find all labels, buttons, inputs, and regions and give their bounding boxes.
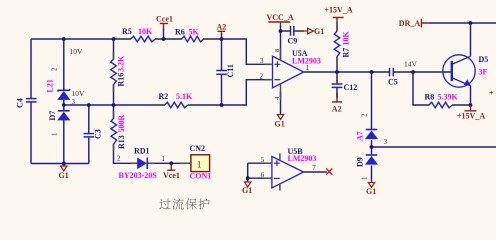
svg-text:3F: 3F [479, 68, 488, 77]
wire RD1 to Vce1 node to CN2 [148, 162, 191, 164]
power port A2 bottom [336, 93, 338, 99]
pin 8 stub U5A [280, 48, 282, 61]
resistor R6 pins [175, 38, 182, 40]
U5A pin3 stub [265, 63, 273, 65]
wire top rail between R5 and R6 [155, 38, 182, 40]
junction C11 bottom [220, 103, 224, 107]
transistor D5 emitter diagonal [453, 78, 471, 86]
wire U5B pin6 [248, 177, 272, 179]
svg-text:A7: A7 [356, 131, 365, 141]
wire D9 column to ground [371, 147, 373, 181]
wire R8 to emitter node [453, 104, 471, 106]
U5A plus sign [275, 61, 281, 67]
wire diode A7 column from node [371, 72, 373, 147]
U5B pin5 stub [264, 162, 272, 164]
junction output R7-C12 [335, 70, 339, 74]
svg-text:R16: R16 [116, 73, 125, 87]
transistor D5 emitter arrow [464, 79, 471, 86]
wire U5B pin5 [248, 162, 272, 164]
svg-text:2: 2 [361, 113, 369, 117]
junction R16 top [112, 37, 116, 41]
wire top rail from R6 to corner and down to U5A pin3 [203, 39, 273, 64]
svg-text:10V: 10V [70, 47, 84, 56]
svg-text:R6: R6 [175, 28, 185, 37]
diode A7 [366, 129, 378, 131]
capacitor C12 pins [336, 76, 338, 84]
junction Vce1 [169, 161, 173, 165]
junction collector DR_A [469, 21, 473, 25]
svg-text:5.1K: 5.1K [176, 92, 193, 101]
svg-text:1: 1 [162, 155, 166, 163]
power port Vce1 [167, 164, 175, 170]
svg-text:10V: 10V [72, 89, 86, 98]
svg-text:6: 6 [261, 171, 265, 179]
resistor R2 zigzag [165, 102, 188, 108]
svg-text:C12: C12 [344, 83, 358, 92]
resistor R5 pins [123, 38, 131, 40]
U5A output pin stub [304, 71, 312, 73]
junction U5B inputs [246, 176, 250, 180]
wire base node to Q base [413, 71, 451, 73]
wire U5B input tie x=247.7 [247, 163, 249, 181]
svg-text:R5: R5 [122, 27, 132, 36]
svg-text:LM2903: LM2903 [292, 57, 321, 66]
wire U5A pin4 to ground [280, 92, 282, 114]
resistor R16 zigzag [111, 59, 117, 84]
svg-text:G1: G1 [366, 187, 376, 196]
svg-text:2: 2 [260, 72, 264, 80]
svg-text:R7: R7 [341, 48, 350, 58]
svg-text:3: 3 [384, 138, 388, 146]
resistor R7 zigzag [334, 31, 340, 57]
svg-text:5: 5 [261, 156, 265, 164]
svg-text:+15V_A: +15V_A [457, 112, 485, 121]
svg-text:10K: 10K [341, 31, 350, 46]
svg-text:2: 2 [117, 155, 121, 163]
diode D7 [58, 110, 70, 112]
diode RD1 pins [131, 162, 138, 164]
resistor R13 zigzag [111, 118, 117, 144]
ground G1 under U5A pin4 [280, 113, 282, 115]
capacitor C12 plates [332, 83, 343, 85]
svg-text:C5: C5 [388, 78, 398, 87]
ground G1 under D9 [371, 181, 373, 183]
wire mid rail y=105 from diode node to R2 [64, 104, 165, 106]
wire U5A output to node [304, 71, 337, 73]
wire top rail y=39 left segment [31, 38, 131, 40]
U5B pin6 stub [264, 177, 272, 179]
diode D9 [366, 154, 378, 156]
wire VCC node to C9 [281, 30, 291, 32]
svg-text:R2: R2 [159, 92, 169, 101]
junction top-left [62, 37, 66, 41]
resistor R8 pins [422, 104, 430, 106]
U5B plus sign [274, 160, 280, 166]
ground G1 right-pointing after C9 [304, 30, 308, 32]
CN2 pin line [180, 162, 191, 164]
svg-text:R13: R13 [117, 135, 126, 149]
svg-text:C11: C11 [226, 64, 235, 77]
capacitor C9 pins [285, 30, 290, 32]
U5B minus sign [274, 177, 280, 179]
U5B bottom power stub [279, 184, 281, 191]
resistor R8 zigzag [429, 102, 453, 108]
svg-text:Cce1: Cce1 [156, 15, 173, 24]
connector CN2 box [191, 155, 210, 172]
capacitor C5 plates [389, 68, 391, 77]
wire R7 pins [336, 22, 338, 72]
junction VCC_A [279, 29, 283, 33]
svg-text:7: 7 [312, 164, 316, 172]
transistor D5 collector diagonal [453, 56, 471, 64]
wire C12 vertical [336, 72, 338, 97]
U5A pin2 stub [265, 79, 273, 81]
svg-text:DR_A: DR_A [399, 19, 421, 28]
U5B output pin stub [304, 171, 312, 173]
U5A minus sign [275, 79, 281, 81]
wire diode column x=63.8 [63, 39, 65, 164]
title text 过流保护 (overcurrent protection) [159, 199, 170, 210]
svg-text:+15V_A: +15V_A [325, 6, 353, 15]
junction diode branch top [370, 70, 374, 74]
wire C5 to base node [394, 71, 413, 73]
svg-text:C3: C3 [94, 129, 103, 139]
wire left branch C4 vertical [30, 39, 32, 164]
svg-text:RD1: RD1 [134, 147, 150, 156]
wire emitter down to node [470, 86, 472, 106]
wire R16 pins [113, 39, 115, 105]
op-amp U5B triangle [272, 156, 304, 188]
svg-text:A2: A2 [217, 23, 227, 32]
resistor R16 pins [113, 52, 115, 60]
power port +15V_A right [465, 106, 477, 111]
svg-text:R8: R8 [425, 93, 435, 102]
capacitor C9 plates [290, 26, 292, 36]
resistor R5 zigzag [131, 36, 156, 42]
resistor R13 pins [113, 111, 115, 119]
wire node3 rail to right edge y=147 [372, 146, 496, 148]
svg-text:BY203-20S: BY203-20S [119, 171, 158, 180]
svg-text:G1: G1 [275, 120, 285, 129]
wire output node to C5 [337, 71, 389, 73]
svg-text:10K: 10K [138, 27, 153, 36]
svg-text:CN2: CN2 [190, 144, 206, 153]
resistor R7 pins [336, 25, 338, 32]
svg-text:5K: 5K [189, 28, 200, 37]
svg-text:G1: G1 [59, 171, 69, 180]
svg-text:14V: 14V [404, 60, 418, 69]
wire DR_A rail y=23 [429, 22, 496, 24]
junction C3 top [87, 103, 91, 107]
capacitor C11 plates [216, 70, 227, 72]
svg-text:3: 3 [260, 57, 264, 65]
no-connect X on U5B output [326, 169, 332, 175]
svg-text:5.39K: 5.39K [438, 93, 459, 102]
svg-text:CON1: CON1 [190, 172, 212, 181]
svg-text:G1: G1 [242, 186, 252, 195]
wire C3 branch vertical [88, 105, 90, 164]
wire U5A pin8 to VCC node [280, 31, 282, 61]
svg-text:D9: D9 [356, 157, 365, 167]
wire R8 branch down and across [413, 72, 429, 105]
svg-text:D7: D7 [48, 111, 57, 121]
svg-text:500R: 500R [117, 115, 126, 133]
svg-text:VCC_A: VCC_A [267, 13, 294, 22]
svg-text:8: 8 [274, 49, 281, 52]
svg-text:L21: L21 [46, 79, 55, 92]
capacitor C3 plates [84, 133, 94, 135]
svg-text:A2: A2 [332, 105, 342, 114]
resistor R6 zigzag [182, 36, 204, 42]
junction Cce1 [162, 37, 166, 41]
U5B top power stub [279, 154, 281, 161]
svg-text:1: 1 [51, 132, 59, 136]
capacitor C4 plates [26, 98, 37, 100]
wire R13 pins and corner to RD1 [114, 105, 138, 163]
svg-text:1: 1 [197, 161, 202, 171]
capacitor C5 pins [384, 71, 389, 73]
svg-text:3: 3 [72, 98, 76, 106]
wire C11 branch vertical [221, 39, 223, 105]
wire U5B output [304, 171, 328, 173]
junction diode mid [62, 103, 66, 107]
svg-text:2: 2 [51, 67, 59, 71]
svg-text:Vce1: Vce1 [163, 171, 180, 180]
svg-text:LM2903: LM2903 [288, 154, 317, 163]
transistor D5 base bar [451, 61, 453, 81]
wire collector up to DR_A rail [470, 23, 472, 57]
zener L21 (cathode bar with wings) [58, 89, 71, 91]
junction base node [411, 70, 415, 74]
transistor D5 circle [443, 55, 475, 87]
diode RD1 (points right) [137, 158, 147, 170]
svg-text:D5: D5 [479, 55, 489, 64]
wire mid rail from R2 to corner up to U5A pin2 [188, 80, 273, 105]
junction A2 top [220, 37, 224, 41]
op-amp U5A triangle [273, 56, 304, 88]
svg-text:C4: C4 [16, 98, 25, 108]
wire C9 to G1 arrow [294, 30, 304, 32]
pin 4 stub U5A [280, 84, 282, 100]
svg-text:+: + [489, 89, 494, 98]
ground G1 under U5B inputs [247, 181, 249, 183]
junction node 3 [370, 145, 374, 149]
ground G1 left [63, 165, 65, 167]
junction emitter R8 [469, 103, 473, 107]
resistor R2 pins [157, 104, 165, 106]
wire bottom left loop y=163.5 [31, 163, 89, 165]
svg-text:1: 1 [361, 176, 369, 180]
svg-text:C9: C9 [288, 37, 298, 46]
svg-text:3.2K: 3.2K [116, 55, 125, 72]
junction R16-R13 [112, 103, 116, 107]
svg-text:G1: G1 [314, 27, 324, 36]
junction ground left [62, 162, 66, 166]
